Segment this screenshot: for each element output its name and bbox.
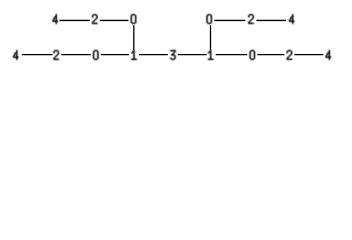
- node T4 label 0 (top row right): [207, 14, 212, 24]
- node T1 label 4 (top row): [53, 14, 58, 24]
- wire edge B7-B8: [294, 54, 323, 56]
- node B5 label 1 (bottom row): [208, 50, 213, 60]
- node T5 label 2 (top row right): [248, 14, 253, 24]
- wire edge B6-B7: [257, 54, 284, 56]
- wire edge T3-B3 (vertical): [133, 25, 135, 50]
- node B8 label 4 (bottom row): [326, 50, 331, 60]
- wire edge T1-T2: [60, 19, 90, 21]
- wire edge T4-B5 (vertical): [210, 25, 212, 50]
- node B4 label 3 (bottom row): [170, 50, 175, 60]
- wire edge T5-T6: [256, 19, 286, 21]
- wire edge B1-B2: [61, 54, 91, 56]
- node B1 label 2 (bottom row): [54, 50, 59, 60]
- node B0 label 4 (bottom row): [13, 50, 18, 60]
- node B6 label 0 (bottom row): [250, 50, 255, 60]
- node T3 label 0 (top row): [131, 14, 136, 24]
- node T2 label 2 (top row): [92, 14, 97, 24]
- node B7 label 2 (bottom row): [287, 50, 292, 60]
- wire edge B3-B4: [139, 54, 168, 56]
- wire edge B5-B6: [216, 54, 248, 56]
- wire edge B2-B3: [101, 54, 129, 56]
- wire edge B4-B5: [178, 54, 207, 56]
- node T6 label 4 (top row right): [289, 14, 294, 24]
- node B2 label 0 (bottom row): [93, 50, 98, 60]
- wire edge T4-T5: [214, 19, 245, 21]
- node B3 label 1 (bottom row): [131, 50, 136, 60]
- wire edge T2-T3: [100, 19, 129, 21]
- wire edge B0-B1: [22, 54, 53, 56]
